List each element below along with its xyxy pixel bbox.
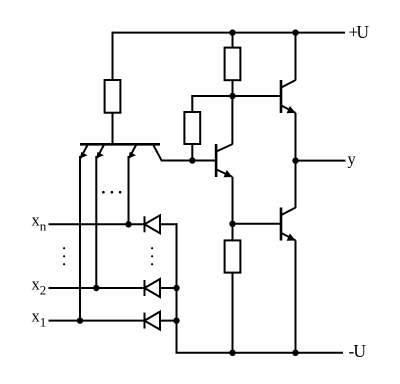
VT2 emitter arrowhead <box>224 170 233 177</box>
resistor R2 <box>184 112 200 144</box>
VT3 collector diagonal <box>281 80 296 88</box>
wire R2 top riser <box>191 96 193 112</box>
node y junction <box>292 157 298 163</box>
VT4 emitter arrowhead <box>287 234 296 241</box>
node x2 / VT1 emitter 2 <box>93 285 99 291</box>
VT1 emitter 3 <box>129 145 136 158</box>
node VT4 emitter / -U rail <box>292 350 298 356</box>
svg-text:x2: x2 <box>32 274 47 297</box>
node x1 / VT1 emitter 1 <box>77 317 83 323</box>
node +U / R3 junction <box>229 29 235 35</box>
svg-text:x1: x1 <box>32 307 47 330</box>
wire VT4 emitter to -U rail <box>295 240 297 352</box>
wire VD3 to bus <box>160 320 177 322</box>
diode VD1 cathode bar <box>144 216 146 232</box>
VT3 emitter arrowhead <box>287 106 296 113</box>
wire R1 to VT1 base <box>112 113 114 144</box>
node C junction <box>229 221 235 227</box>
node B junction <box>229 93 235 99</box>
svg-text:+U: +U <box>349 22 370 42</box>
resistor R3 <box>225 48 241 81</box>
wire diode bus <box>176 223 178 352</box>
wire input xn <box>49 223 145 225</box>
transistor VT3 base bar <box>280 80 283 113</box>
transistor VT1 multi-emitter base bar <box>80 143 160 146</box>
wire VD1 to bus <box>160 223 178 225</box>
ellipsis dots between input lines <box>63 247 65 265</box>
wire VT3 collector to +U rail <box>295 32 297 81</box>
VT3 emitter diagonal <box>281 105 296 113</box>
transistor VT4 base bar <box>280 208 283 241</box>
diode VD1 triangle <box>145 215 161 233</box>
diode VD2 triangle <box>145 279 161 297</box>
VT4 emitter diagonal <box>281 233 296 241</box>
VT1 collector diagonal <box>153 145 161 160</box>
node bus / VD2 <box>173 285 179 291</box>
wire VD2 to bus <box>160 287 177 289</box>
VT1 emitter 2 <box>97 145 104 158</box>
node +U / VT3 collector <box>292 29 298 35</box>
wire R2 bottom to base line <box>191 144 193 161</box>
svg-text:y: y <box>348 149 357 168</box>
VT1 emitter 3 arrowhead <box>129 152 137 159</box>
transistor VT2 base bar <box>215 144 218 177</box>
VT1 emitter 2 arrowhead <box>96 152 104 159</box>
wire R3 to node B <box>232 80 234 96</box>
node junction R2 bottom <box>189 157 195 163</box>
svg-text:xn: xn <box>32 210 47 233</box>
resistor R1 <box>105 80 121 113</box>
VT1 emitter 1 arrowhead <box>80 152 88 159</box>
wire VT3 emitter to node y <box>295 113 297 161</box>
VT2 emitter diagonal <box>216 169 232 177</box>
node bus / VD3 <box>173 317 179 323</box>
ellipsis dots between VT1 emitters <box>102 191 121 194</box>
wire input x2 <box>49 287 145 289</box>
wire +U rail <box>113 32 346 34</box>
wire VT1 emitter 3 to xn line <box>128 156 130 224</box>
node xn / VT1 emitter 3 <box>125 221 131 227</box>
wire VT1 emitter 2 to x2 line <box>95 156 97 288</box>
VT4 collector diagonal <box>281 208 296 216</box>
resistor R4 <box>225 240 241 272</box>
diode VD3 triangle <box>145 312 161 330</box>
wire VT1 emitter 1 to x1 line <box>79 156 81 321</box>
wire node B horizontal line <box>191 95 281 97</box>
VT1 emitter 1 <box>81 145 88 158</box>
wire node C to R4 <box>232 224 234 241</box>
wire R4 to -U rail <box>232 273 234 353</box>
wire input x1 <box>49 320 145 322</box>
wire +U to R3 <box>232 33 234 48</box>
wire node y to VT4 collector <box>295 161 297 208</box>
wire VT2 collector to node B <box>231 96 233 145</box>
wire y output <box>296 160 346 162</box>
wire VT2 emitter to node C <box>232 177 234 224</box>
wire +U rail drop to R1 <box>112 32 114 80</box>
wire -U rail <box>176 352 344 354</box>
wire node C to VT4 base <box>233 223 282 225</box>
diode VD2 cathode bar <box>144 280 146 296</box>
node R4 / -U rail <box>229 350 235 356</box>
diode VD3 cathode bar <box>144 313 146 329</box>
ellipsis dots between diodes <box>151 247 153 265</box>
wire VT1 collector to VT2 base <box>161 160 216 162</box>
svg-text:-U: -U <box>349 341 367 361</box>
VT2 collector diagonal <box>216 144 232 152</box>
